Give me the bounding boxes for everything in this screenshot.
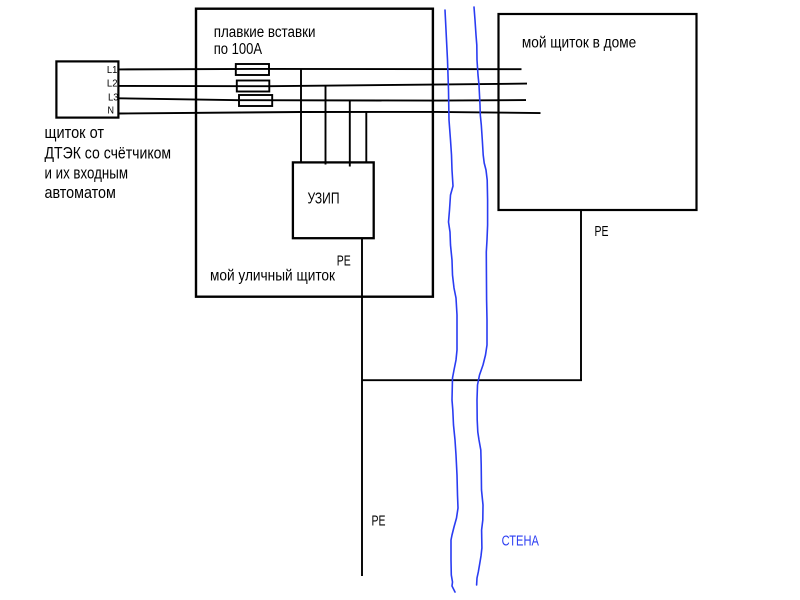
- svg-text:PE: PE: [372, 512, 386, 529]
- svg-text:мой уличный щиток: мой уличный щиток: [210, 268, 336, 285]
- svg-text:мой щиток в доме: мой щиток в доме: [522, 34, 636, 51]
- svg-text:по 100А: по 100А: [214, 41, 263, 58]
- svg-text:L3: L3: [108, 92, 119, 104]
- svg-text:плавкие вставки: плавкие вставки: [214, 24, 316, 41]
- svg-text:N: N: [108, 104, 115, 116]
- svg-text:щиток от: щиток от: [45, 124, 105, 142]
- svg-text:и их входным: и их входным: [45, 164, 129, 182]
- svg-text:автоматом: автоматом: [45, 184, 116, 202]
- svg-text:PE: PE: [337, 252, 351, 269]
- svg-text:ДТЭК со счётчиком: ДТЭК со счётчиком: [45, 144, 172, 162]
- svg-text:СТЕНА: СТЕНА: [502, 534, 540, 550]
- svg-text:L2: L2: [107, 78, 118, 90]
- svg-text:УЗИП: УЗИП: [308, 191, 340, 208]
- svg-text:L1: L1: [107, 64, 118, 76]
- svg-text:PE: PE: [595, 223, 609, 240]
